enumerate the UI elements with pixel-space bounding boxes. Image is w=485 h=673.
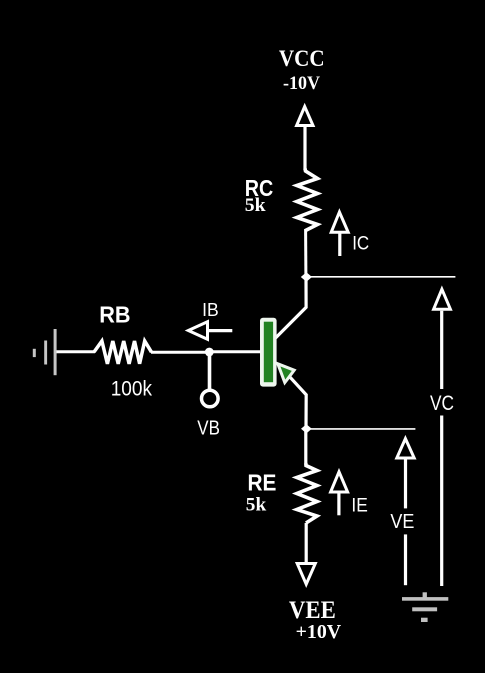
svg-text:VC: VC [430,391,454,415]
svg-text:VB: VB [197,418,220,440]
svg-text:IC: IC [352,234,369,255]
VCC supply arrow [297,107,313,170]
svg-text:VE: VE [390,510,414,533]
voltage arrow VC [434,289,451,586]
wire RC bottom to collector node [304,229,307,277]
svg-text:100k: 100k [111,376,153,400]
svg-text:IB: IB [202,300,219,320]
svg-text:+10V: +10V [296,621,342,643]
ground (left input) [33,329,57,375]
node C junction [301,272,312,282]
wire collector to transistor [276,277,307,338]
svg-text:VEE: VEE [289,597,336,624]
svg-text:-10V: -10V [283,74,321,94]
wire emitter diagonal [278,364,306,428]
wire collector node to VC line [306,276,455,278]
wire base node to transistor [210,350,261,353]
wire emitter node to VE line [306,428,415,430]
node B junction [205,348,214,357]
svg-text:5k: 5k [245,195,266,216]
svg-text:RB: RB [99,302,130,328]
svg-text:VCC: VCC [279,46,325,71]
svg-text:5k: 5k [246,495,267,516]
wire RB to base node [151,351,210,354]
resistor RE [297,463,317,523]
wire ground to RB [57,350,96,353]
resistor RB [94,341,152,364]
current arrow IC [331,212,348,256]
transistor emitter arrow [278,364,294,383]
resistor RC [297,169,318,231]
node E junction [301,424,312,433]
ground (bottom right) [402,592,448,622]
current arrow IB [188,322,232,340]
transistor Q1 base bar [260,318,277,387]
svg-text:IE: IE [351,496,367,517]
svg-text:RE: RE [248,470,277,496]
voltage arrow VE [397,439,414,586]
VEE supply arrow [297,523,315,584]
current arrow IE [331,472,348,516]
wire emitter node to RE [304,428,307,463]
probe VB [202,352,219,407]
